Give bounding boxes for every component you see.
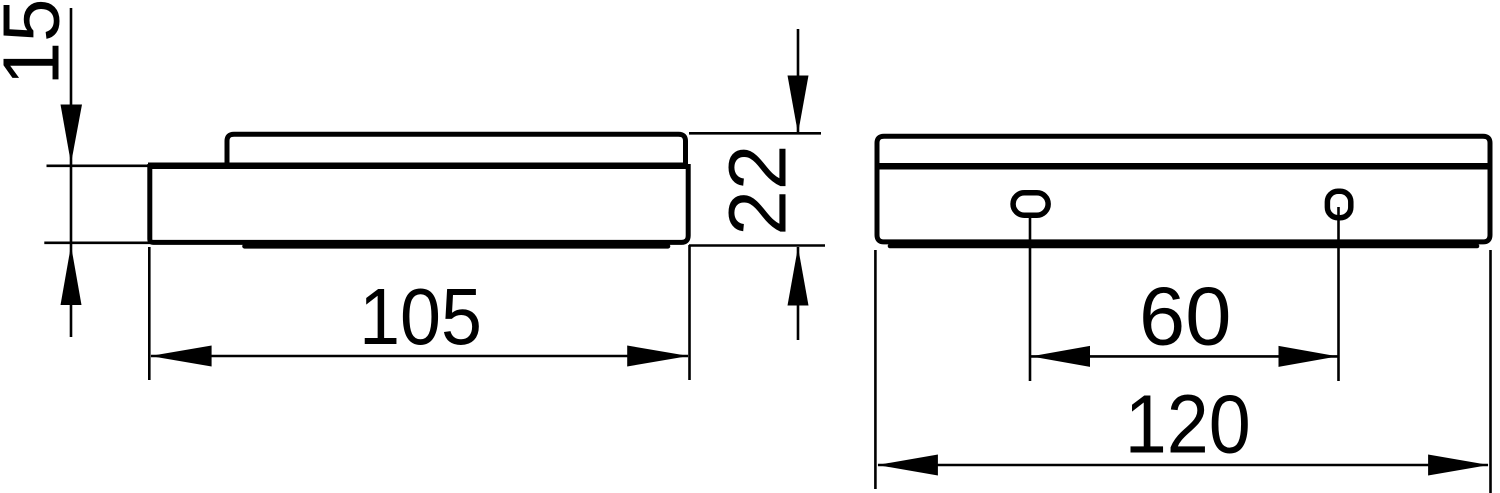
left view: foot shadow line (245, 244, 669, 249)
left view: body outline (front dish) (150, 164, 688, 242)
dim 22: bottom extension line (689, 244, 825, 247)
dim 105: dimension line (151, 355, 688, 358)
dim 120: left arrow (877, 455, 938, 476)
dim 22: down arrow (788, 76, 809, 134)
dim 120: right extension line (1489, 250, 1492, 493)
right view: body outline (877, 165, 1490, 242)
dim 105: left extension line (148, 247, 151, 380)
dim 15: top extension line (47, 165, 152, 168)
dim 22: up arrow (788, 247, 809, 306)
dim 22: lower dimension line segment (797, 247, 800, 340)
left view: top plate outline (227, 134, 686, 167)
svg-text:105: 105 (359, 272, 482, 362)
dim 60: right extension line (1337, 207, 1340, 381)
dim 120: right arrow (1428, 455, 1489, 476)
dim 22: top extension line (689, 132, 821, 135)
dim 60: right arrow (1279, 346, 1338, 367)
dim 120: dimension line (878, 464, 1488, 467)
dim 22: upper dimension line segment (797, 29, 800, 133)
right view: right mounting hole (1327, 191, 1350, 217)
dim 60: left extension line (1029, 218, 1032, 382)
dim 105: right arrow (627, 346, 688, 367)
dim 15: down arrow (61, 105, 83, 164)
right view: foot shadow line (890, 244, 1477, 249)
dim 60: dimension line (1031, 355, 1338, 358)
dim 120: left extension line (874, 250, 877, 489)
dim 105: left arrow (150, 346, 211, 367)
dim 15: up arrow (61, 246, 82, 306)
dim 15: bottom extension line (44, 242, 151, 245)
dim 105: right extension line (688, 245, 691, 380)
right view: left mounting hole (oval) (1013, 193, 1048, 215)
right view: top plate outline (877, 136, 1490, 167)
left view: divider line (plate bottom / body top) (148, 163, 688, 170)
dim 60: left arrow (1031, 346, 1090, 367)
svg-text:15: 15 (0, 0, 76, 85)
svg-text:22: 22 (713, 145, 804, 236)
svg-text:120: 120 (1125, 377, 1251, 470)
dim 15: vertical dimension line (70, 8, 73, 337)
svg-text:60: 60 (1139, 270, 1231, 363)
right view: divider line (877, 163, 1490, 170)
